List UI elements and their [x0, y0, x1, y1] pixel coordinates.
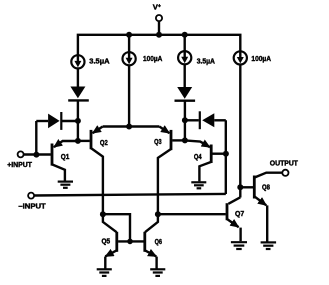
svg-text:Q2: Q2: [100, 138, 108, 147]
svg-text:Q6: Q6: [155, 237, 162, 246]
diode D1: [68, 87, 89, 101]
wire V+ stub: [158, 22, 160, 35]
transistor Q4: [185, 140, 226, 181]
ground Q5: [97, 269, 112, 276]
wire CS3 to D2: [183, 64, 185, 88]
transistor Q3: [158, 127, 185, 215]
wire CS1 to D1: [77, 68, 79, 87]
diode D2: [175, 87, 196, 101]
node tail: [126, 124, 132, 130]
wire D1 to node A: [77, 100, 79, 140]
svg-text:Q5: Q5: [102, 236, 111, 245]
diode D3: [36, 112, 78, 130]
svg-text:Q7: Q7: [235, 209, 244, 218]
wire CS2 stub: [128, 35, 130, 53]
current source I1 3.5uA: [71, 55, 84, 68]
wire D4 anode / -input riser: [225, 120, 227, 194]
svg-text:V+: V+: [153, 3, 161, 12]
ground Q7: [231, 242, 247, 249]
current source I4 100uA: [234, 51, 247, 64]
svg-text:–INPUT: –INPUT: [18, 202, 46, 211]
node Q4 base junction: [223, 151, 229, 157]
current source I2 100uA: [123, 52, 136, 65]
diode D4: [185, 111, 226, 129]
node mirror base junction: [127, 239, 133, 245]
node rail-CS2: [126, 32, 132, 38]
node +input junction: [33, 152, 39, 158]
transistor Q7: [158, 197, 241, 241]
wire CS4 to Q8 base node: [239, 64, 241, 197]
ground Q6: [150, 269, 165, 276]
transistor Q5: [103, 214, 117, 269]
svg-text:+INPUT: +INPUT: [7, 160, 32, 169]
-INPUT terminal: [28, 193, 34, 199]
svg-text:3.5µA: 3.5µA: [197, 57, 216, 66]
current source I3 3.5uA: [178, 51, 191, 64]
transistor Q2: [78, 127, 103, 215]
OUTPUT terminal: [282, 170, 288, 176]
wire D3 anode to +input: [35, 121, 37, 155]
node Q3 collector / Q7 base: [155, 211, 161, 217]
wire mirror base line: [118, 240, 143, 242]
svg-text:Q4: Q4: [194, 152, 202, 161]
svg-text:Q8: Q8: [262, 182, 270, 191]
wire +input to Q1 base: [24, 153, 51, 155]
node Q8 base: [237, 184, 243, 190]
ground Q4: [191, 182, 206, 188]
node A (Q1 emitter / Q2 base): [75, 138, 81, 144]
svg-text:Q1: Q1: [61, 152, 70, 161]
svg-text:3.5µA: 3.5µA: [89, 57, 110, 66]
ground Q1: [58, 182, 73, 188]
node rail-V+: [156, 32, 162, 38]
node D4 cathode: [182, 117, 188, 123]
wire -input line: [34, 194, 225, 196]
+INPUT terminal: [18, 151, 24, 157]
node rail-CS3: [182, 32, 188, 38]
node Q2 collector / Q5: [100, 211, 106, 217]
ground Q8: [261, 242, 277, 249]
wire CS3 stub: [183, 35, 185, 52]
wire V+ supply rail: [78, 35, 240, 56]
svg-text:OUTPUT: OUTPUT: [270, 159, 299, 168]
wire D2 to node B: [184, 101, 186, 141]
transistor Q1: [52, 141, 78, 181]
svg-text:100µA: 100µA: [143, 54, 163, 63]
wire tail Q2-Q3: [103, 125, 160, 127]
wire CS2 to tail node: [128, 65, 130, 127]
svg-text:Q3: Q3: [154, 137, 162, 146]
V+ terminal: [156, 15, 162, 21]
node D3 cathode: [75, 118, 81, 124]
wire Q5 collector to mirror bases: [103, 214, 130, 241]
svg-text:100µA: 100µA: [251, 54, 271, 63]
node B (Q3 base / Q4 emitter): [182, 137, 188, 143]
transistor Q6: [145, 214, 158, 269]
transistor Q8: [240, 173, 281, 242]
